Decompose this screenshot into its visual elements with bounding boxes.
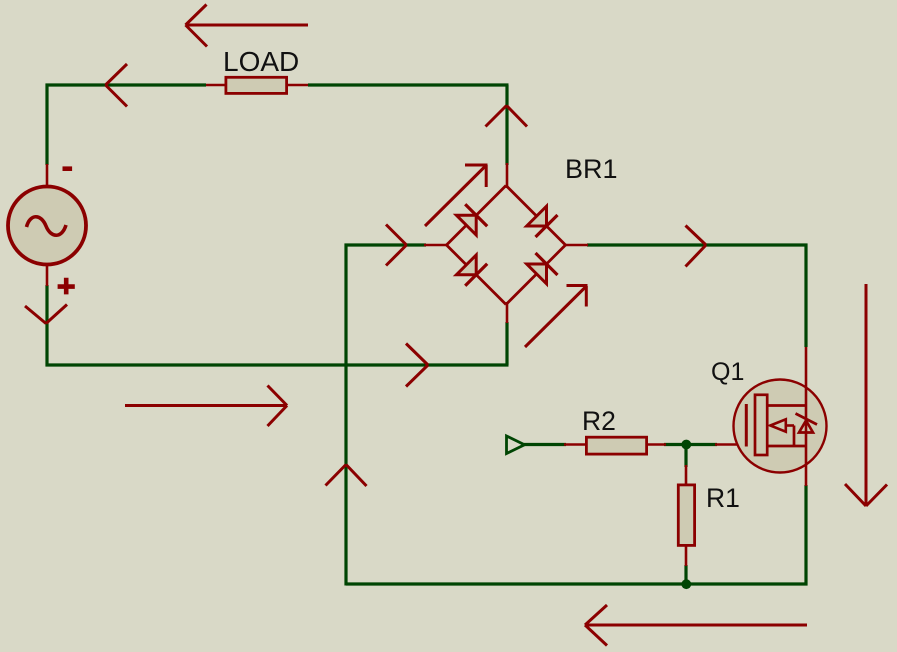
- pin: AC source bottom pin: [46, 263, 49, 286]
- wire: gate wire (input to R2): [524, 443, 566, 446]
- svg-text:Q1: Q1: [711, 358, 744, 386]
- input port triangle at R2 left: [507, 436, 525, 454]
- bridge diode D3 (bottom-left, points to bottom vertex): [456, 255, 487, 286]
- pin: Q1 gate pin: [715, 443, 746, 446]
- bridge diode D1 (top-left, points to top vertex): [456, 204, 487, 235]
- arrow: chevron down below AC source: [25, 305, 67, 324]
- arrow: chevron right on bottom AC wire: [406, 344, 428, 387]
- Q1 substrate arrow (points left): [770, 419, 794, 446]
- wire: left vertical (AC source bottom down to bottom wire): [45, 285, 48, 367]
- arrow: chevron up on bridge top vertical: [486, 106, 528, 127]
- AC source minus sign: [63, 166, 73, 171]
- wire: bridge left horizontal: [345, 243, 427, 246]
- pin: LOAD left pin: [206, 84, 228, 87]
- wire: bridge bottom vertical: [505, 322, 508, 365]
- wire: top wire right segment (LOAD to bridge top corner): [308, 83, 509, 86]
- wire: right vertical lower (Q1 source to bottom rail): [804, 485, 807, 586]
- pin: Q1 drain-source vertical (red segment of right vertical): [805, 347, 808, 486]
- bridge BR1 diamond bottom-right edge: [506, 245, 566, 305]
- arrow: diagonal arrow at bridge top-left: [425, 165, 488, 226]
- pin: bridge bottom pin: [506, 302, 509, 323]
- pin: LOAD right pin: [286, 84, 308, 87]
- arrow: chevron up on DC loop left vertical: [326, 465, 367, 487]
- bridge BR1 diamond bottom-left edge: [447, 245, 507, 305]
- bridge diode D2 (top-right, points to right vertex): [527, 206, 558, 237]
- wire: right vertical upper (bridge right wire to Q1 drain): [804, 244, 807, 348]
- svg-text:R2: R2: [582, 406, 616, 436]
- resistor R2: [586, 437, 646, 454]
- AC source V1 circle: [8, 187, 86, 265]
- pin: R1 top pin: [685, 465, 688, 486]
- pin: R1 bottom pin: [685, 546, 688, 566]
- MOSFET Q1 body circle: [734, 380, 827, 473]
- pin: bridge right pin: [564, 244, 588, 247]
- Q1 gate electrode line: [745, 404, 748, 447]
- arrow: chevron right on bridge right wire: [686, 226, 707, 267]
- svg-text:LOAD: LOAD: [223, 46, 299, 77]
- svg-text:BR1: BR1: [565, 154, 618, 184]
- arrow: right side long arrow pointing down: [845, 284, 887, 506]
- pin: bridge top pin: [506, 163, 509, 188]
- wire: R1 bottom wire: [684, 565, 687, 585]
- junction dot at gate node: [681, 440, 691, 450]
- wire: left vertical of DC loop: [344, 244, 347, 586]
- arrow: mid-left arrow pointing right: [125, 386, 287, 427]
- pin: bridge left pin: [424, 244, 448, 247]
- Q1 channel plate: [755, 395, 767, 455]
- pin: AC source top pin: [46, 164, 49, 188]
- pin: R2 right pin: [646, 443, 666, 446]
- Q1 drain rail: [767, 404, 808, 407]
- arrow: chevron left on top wire: [106, 64, 128, 107]
- wire: bottom rail of DC loop: [346, 582, 808, 585]
- arrow: chevron right into bridge left vertex: [386, 225, 407, 266]
- wire: bridge top vertical: [505, 85, 508, 165]
- resistor LOAD: [226, 77, 287, 93]
- bridge BR1 diamond top-left edge: [447, 186, 507, 246]
- AC source plus sign: [58, 278, 75, 295]
- arrow: top-left long arrow pointing left: [186, 5, 309, 47]
- Q1 body diode (on right vertical, cathode up): [796, 414, 818, 433]
- wire: left vertical (top wire down to AC source): [45, 84, 48, 166]
- Q1 source rail: [767, 445, 808, 448]
- arrow: diagonal arrow at bridge bottom-right: [525, 286, 588, 348]
- arrow: bottom long arrow pointing left: [585, 605, 807, 646]
- wire: gate wire (R2 to junction to Q1 gate): [664, 443, 717, 446]
- resistor R1: [678, 485, 694, 546]
- pin: R2 left pin: [564, 443, 588, 446]
- wire: top wire left segment (source top to LOAD): [46, 83, 207, 86]
- bridge BR1 diamond top-right edge: [506, 186, 566, 246]
- wire: R1 top wire: [684, 445, 687, 468]
- wire: bottom AC wire (source to bridge bottom): [46, 363, 509, 366]
- AC source sine wave: [27, 217, 67, 236]
- junction dot at bottom rail: [681, 579, 691, 589]
- bridge diode D4 (bottom-right, points to right vertex): [527, 253, 558, 284]
- wire: bridge right horizontal: [587, 243, 808, 246]
- svg-text:R1: R1: [706, 483, 740, 513]
